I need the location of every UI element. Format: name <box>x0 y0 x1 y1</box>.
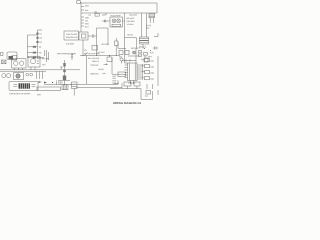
fuse block grid <box>19 83 31 88</box>
horn symbol <box>16 74 20 78</box>
svg-text:MAIN HARNESS CONN: MAIN HARNESS CONN <box>57 52 77 55</box>
relay RL2 <box>119 51 123 55</box>
svg-text:BAT 12V: BAT 12V <box>42 57 50 60</box>
diode D1 <box>36 33 38 35</box>
resistor R8 <box>118 72 126 77</box>
wire link <box>128 55 140 57</box>
svg-text:WIRING DIAGRAM 4.8: WIRING DIAGRAM 4.8 <box>113 102 142 105</box>
svg-text:B-16 GRN: B-16 GRN <box>66 42 75 45</box>
wire bottom loop <box>37 87 61 91</box>
resistor R3 <box>33 57 36 59</box>
svg-text:BLK WHT: BLK WHT <box>127 17 136 20</box>
svg-text:R3: R3 <box>39 57 41 60</box>
wire sender bottom stub <box>82 40 84 56</box>
tick mark <box>103 73 106 75</box>
svg-text:B-13: B-13 <box>112 82 116 85</box>
wire harness bus lower <box>0 70 46 72</box>
wire mid link <box>125 37 137 39</box>
sender inner element <box>81 34 86 38</box>
node dot <box>52 82 53 83</box>
resistor R7 <box>63 70 65 73</box>
node dots <box>150 22 153 24</box>
instrument cluster box <box>12 59 27 68</box>
horn H1 box <box>14 73 24 80</box>
wire drops right <box>147 84 153 89</box>
wire ladder cross top <box>28 34 38 36</box>
fuel pump unit box <box>110 17 123 27</box>
resistor R11 <box>140 41 149 44</box>
switch inner box <box>12 56 17 61</box>
svg-text:BLK YEL WHT GRN: BLK YEL WHT GRN <box>84 52 100 55</box>
wire drops to lower cluster <box>37 71 43 79</box>
svg-text:12V DC: 12V DC <box>127 34 134 37</box>
node cluster right low <box>146 91 151 95</box>
wire rung 1 <box>28 46 38 48</box>
svg-text:FUSE BLOCK 10A 15A 20A: FUSE BLOCK 10A 15A 20A <box>9 92 31 95</box>
svg-text:R24: R24 <box>150 78 153 81</box>
wire riser2 <box>107 28 109 45</box>
wire mid drop <box>136 38 138 48</box>
connector CN4 <box>124 82 131 86</box>
svg-text:TURN SIG: TURN SIG <box>90 64 99 67</box>
wire stubs center <box>45 50 49 62</box>
svg-text:FUEL GAUGE: FUEL GAUGE <box>66 33 78 36</box>
wire ladder top <box>38 29 43 31</box>
right rail <box>157 56 159 86</box>
resistor R14 <box>145 71 150 74</box>
resistor R2 <box>33 52 36 54</box>
capacitor C4 <box>153 47 158 50</box>
IC right pins <box>137 65 142 79</box>
unit box below bus <box>107 57 112 62</box>
svg-text:HORN RLY: HORN RLY <box>90 73 100 76</box>
cluster wires upper right mid <box>118 42 126 48</box>
diode D3 <box>36 41 38 43</box>
battery BT1 <box>57 81 62 85</box>
wire CN3 drop <box>73 89 75 96</box>
wire right drop A <box>141 13 143 37</box>
wire link low <box>122 60 136 62</box>
resistor R16 <box>144 53 148 56</box>
coil K1 <box>63 76 66 81</box>
IC U1 box <box>128 63 138 81</box>
svg-text:GRN RED: GRN RED <box>127 20 136 23</box>
wire center drop <box>124 13 126 63</box>
wire CN4 CN5 stubs <box>128 86 138 89</box>
node tick <box>105 13 107 15</box>
svg-text:RES 4.7k: RES 4.7k <box>139 46 146 49</box>
pilot lamp P2 <box>7 74 11 78</box>
capacitor C1 <box>104 20 106 23</box>
node spine taps <box>81 7 84 27</box>
svg-text:E-2: E-2 <box>145 95 148 98</box>
diode D7 <box>139 54 142 56</box>
svg-text:BLK YEL WHT: BLK YEL WHT <box>88 57 100 60</box>
pump element <box>112 24 121 26</box>
fuse block bars <box>14 84 18 86</box>
svg-text:D2: D2 <box>40 37 42 40</box>
svg-text:P.8: P.8 <box>84 49 86 52</box>
svg-text:GRN 0.5: GRN 0.5 <box>92 60 99 63</box>
wire chain cross <box>58 80 70 82</box>
wire R5 leads <box>115 38 117 56</box>
svg-text:YEL: YEL <box>85 20 88 23</box>
text labels group <box>9 4 154 97</box>
svg-text:REG RECT: REG RECT <box>131 47 141 50</box>
svg-text:BLK WHT: BLK WHT <box>130 14 139 17</box>
wire q1 stub <box>121 61 123 63</box>
resistor R5 <box>115 41 119 46</box>
svg-text:D3: D3 <box>40 41 42 44</box>
diode D4 <box>39 81 42 83</box>
diode D6 <box>139 51 142 53</box>
speedometer dial <box>30 59 35 64</box>
resistor R10 <box>140 37 149 40</box>
lamp unit L1 <box>2 60 7 64</box>
connector CN5 <box>134 82 140 86</box>
terminal block TB1 <box>77 1 80 4</box>
wire long bottom C <box>110 89 153 100</box>
wire right mid drop <box>111 58 113 74</box>
flasher F3 <box>30 73 33 76</box>
bottom row connectors <box>114 83 119 85</box>
fuse block box <box>9 82 38 91</box>
pin rail right <box>142 64 144 80</box>
center chain vertical <box>64 60 66 85</box>
wire ic top link <box>125 48 137 63</box>
motor M1 <box>112 19 116 23</box>
node tick center <box>60 67 62 69</box>
sender unit box <box>79 32 88 40</box>
junction dots on mid bus <box>83 55 84 56</box>
wire second bus <box>81 12 157 14</box>
resistor R1 <box>33 46 36 48</box>
svg-text:FLASH: FLASH <box>98 68 104 71</box>
arrow marker <box>104 64 108 65</box>
wire ic bottom drops <box>131 81 134 85</box>
connector CN2 <box>149 14 155 18</box>
resistor R9 <box>71 53 73 60</box>
svg-text:CDI UNIT: CDI UNIT <box>128 82 136 85</box>
relay RL3 <box>125 51 129 55</box>
legend box NOTE <box>64 31 79 40</box>
flasher F2 <box>26 73 29 76</box>
gauge G1 <box>14 61 18 65</box>
resistor R13 <box>145 65 150 68</box>
wire sender right lead <box>88 35 92 37</box>
title text <box>113 102 142 105</box>
speedo marks <box>37 59 39 64</box>
capacitor C2 <box>92 34 94 37</box>
wire pump right lead <box>123 20 125 22</box>
wire ladder vertical A <box>37 30 39 58</box>
wire R8 left <box>112 73 118 75</box>
wire long bottom B <box>76 83 122 88</box>
svg-text:R23: R23 <box>150 72 153 75</box>
wire hook right <box>154 33 158 37</box>
wire C2 to riser <box>94 35 97 37</box>
wire pump left lead <box>102 20 110 22</box>
switch SW1 <box>85 52 88 55</box>
switch contact blob <box>9 56 14 59</box>
fuse F1 <box>95 14 99 17</box>
relay box RL1 <box>92 46 98 51</box>
gauge G2 <box>19 61 23 65</box>
wire stub below resistors <box>142 44 144 49</box>
wire cluster stubs <box>15 67 36 70</box>
fuse block marks <box>32 85 36 87</box>
svg-text:YEL BLU: YEL BLU <box>127 23 135 26</box>
connector CN3 <box>72 82 78 89</box>
motor M2 <box>117 19 121 23</box>
resistor R15 <box>145 77 150 80</box>
wire CN2 leads <box>150 18 153 23</box>
IC left pins <box>125 65 128 78</box>
svg-text:FUEL PUMP: FUEL PUMP <box>111 14 122 17</box>
resistor R6 <box>63 63 65 67</box>
svg-text:SENDER UNIT: SENDER UNIT <box>66 36 79 39</box>
diode D5 <box>44 82 47 84</box>
transistor Q1 <box>120 58 123 61</box>
ignition switch box <box>7 52 17 60</box>
terminal stub left <box>1 53 4 56</box>
wire below-bus drop <box>86 56 88 85</box>
wire right drop B <box>146 13 148 37</box>
wire unit stub <box>109 56 111 58</box>
wire main left spine <box>80 2 82 32</box>
wire top bus B+ <box>81 2 157 4</box>
pilot lamp P1 <box>2 74 6 78</box>
wire mid bus <box>80 55 120 57</box>
wire harness bus upper <box>0 69 80 71</box>
node dot mid right <box>144 48 145 49</box>
connector CN6 <box>62 85 68 90</box>
capacitor C3 <box>144 58 148 62</box>
wire ladder vertical B <box>27 35 29 58</box>
diode D2 <box>36 37 38 39</box>
IC pin rails <box>129 63 135 81</box>
wire rung 2 <box>28 52 38 54</box>
speedometer box <box>28 56 40 67</box>
node dot mid right 2 <box>150 50 151 51</box>
lamp L2 <box>133 51 136 54</box>
svg-text:B2: B2 <box>89 14 91 17</box>
svg-text:R22: R22 <box>150 66 153 69</box>
svg-text:R21: R21 <box>150 60 153 63</box>
wire rung 3 <box>28 57 45 59</box>
svg-text:R2: R2 <box>39 51 41 54</box>
wire long bottom A <box>70 80 118 84</box>
svg-text:D1: D1 <box>40 32 42 35</box>
wire bottom run <box>44 84 71 86</box>
resistor R12 <box>145 59 150 62</box>
wire riser <box>97 28 109 56</box>
svg-text:YEL: YEL <box>141 76 144 79</box>
svg-text:IGN COIL: IGN COIL <box>102 43 110 46</box>
wire bus right drop <box>156 3 158 13</box>
svg-text:R1: R1 <box>39 46 41 49</box>
